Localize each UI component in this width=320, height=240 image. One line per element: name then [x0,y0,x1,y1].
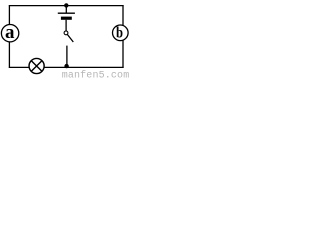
node: bottom junction [64,64,68,68]
lamp: envelope circle [29,58,44,73]
node: battery tap junction [64,3,68,7]
switch S: upper lead [65,20,67,31]
wire: left lower vertical [8,42,10,68]
svg-text:a: a [5,22,15,43]
wire: right upper vertical [122,5,124,26]
lamp: cross diagonal 2 [31,61,42,72]
lamp: cross diagonal 1 [31,61,42,72]
meter b: circle [113,25,129,41]
wire: bottom middle horizontal [44,66,124,68]
wire: left upper vertical [8,5,10,25]
wire: bottom left horizontal [9,66,29,68]
wire: top horizontal [9,5,124,7]
wire: right lower vertical [122,40,124,68]
svg-text:manfen5.com: manfen5.com [62,70,130,79]
battery cell: top lead [65,6,67,14]
battery negative plate (short thick) [61,17,72,20]
svg-text:b: b [116,25,123,42]
switch S: open blade [67,34,73,42]
wire: switch lower lead [66,46,68,68]
meter a: circle [1,25,18,42]
switch S: pivot circle [64,31,68,35]
battery positive plate (long) [58,12,75,14]
